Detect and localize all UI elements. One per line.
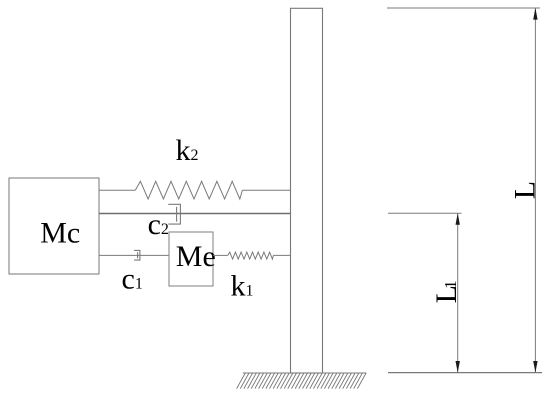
spring k2 (135, 181, 242, 199)
extension line bottom (ground level, right) (388, 372, 542, 374)
arrowhead L1 bottom (456, 361, 460, 373)
wire: spring k1 to column (273, 254, 290, 256)
wire: Mc to spring k2 (99, 189, 135, 191)
arrowhead L bottom (533, 361, 537, 373)
dimension line L1 (457, 213, 459, 372)
mass block Mc (9, 178, 99, 274)
wire: Mc to column through damper c2 (99, 213, 291, 215)
wire: Mc to Me through damper c1 (99, 254, 169, 256)
svg-text:Me: Me (176, 240, 216, 273)
svg-text:k2: k2 (176, 134, 199, 167)
damper c1 cylinder (134, 250, 140, 260)
svg-text:1: 1 (441, 280, 460, 289)
mass block Me (169, 232, 213, 286)
wire: spring k2 to column (242, 189, 290, 191)
ground line (243, 372, 367, 374)
arrowhead L top (533, 8, 537, 20)
extension line middle (at L1 level) (388, 212, 462, 214)
extension line top (at column top) (387, 7, 540, 9)
column (vertical beam) (291, 8, 323, 373)
arrowhead L1 top (456, 213, 460, 225)
svg-text:k1: k1 (231, 270, 254, 303)
svg-text:c1: c1 (122, 263, 143, 296)
damper c2 cylinder (168, 204, 180, 224)
svg-text:Mc: Mc (40, 216, 80, 249)
ground hatching (237, 373, 367, 389)
damper c2 piston (176, 207, 178, 222)
damper c1 piston (137, 252, 139, 258)
svg-text:L: L (508, 181, 541, 199)
dimension line L (534, 8, 536, 373)
wire: Me to spring k1 (213, 254, 228, 256)
spring k1 (228, 252, 274, 259)
